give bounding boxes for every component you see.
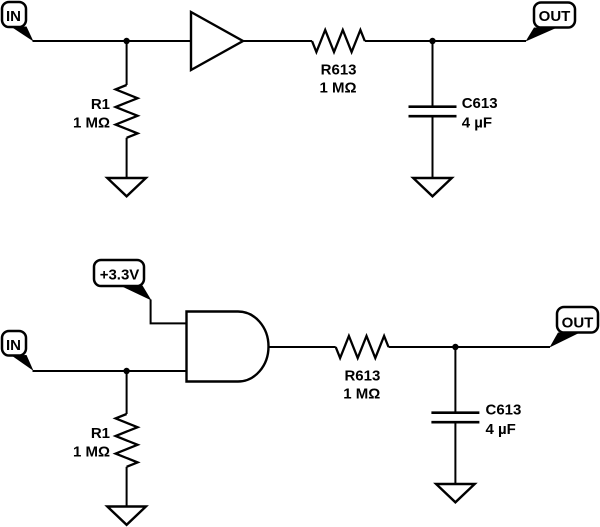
svg-text:4 µF: 4 µF [486, 421, 516, 438]
net label OUT (top) [534, 3, 575, 28]
label R1 1 MΩ (bottom) [73, 425, 110, 461]
net label IN pointer (bottom) [12, 355, 34, 371]
svg-text:IN: IN [6, 8, 21, 25]
svg-text:R1: R1 [91, 96, 110, 113]
ground (bottom left) [107, 507, 146, 525]
svg-text:R1: R1 [91, 425, 110, 442]
wire C613 to ground (bottom) [454, 422, 456, 484]
node D junction [452, 344, 458, 350]
resistor R1 (bottom) [116, 414, 138, 467]
wire AND output to R613 [269, 346, 336, 348]
op-amp buffer [191, 12, 243, 70]
label R613 1 MΩ (bottom) [343, 367, 380, 402]
net label +3.3V pointer [121, 286, 152, 301]
wire R613 to node D [389, 346, 551, 348]
svg-text:1 MΩ: 1 MΩ [343, 386, 380, 403]
ground (bottom right) [436, 484, 475, 502]
svg-text:1 MΩ: 1 MΩ [319, 80, 356, 97]
svg-text:IN: IN [6, 337, 21, 354]
net label IN pointer (top) [12, 27, 34, 42]
node A junction [123, 38, 129, 44]
wire R613 to node B [365, 40, 526, 42]
wire node A to R1 [126, 41, 128, 85]
ground (top left) [107, 178, 146, 196]
svg-text:R613: R613 [344, 367, 380, 384]
svg-text:4 µF: 4 µF [462, 114, 492, 131]
svg-text:1 MΩ: 1 MΩ [73, 115, 110, 132]
svg-text:OUT: OUT [539, 8, 571, 25]
capacitor C613 (top) [409, 107, 457, 117]
resistor R613 (top) [312, 30, 365, 52]
resistor R613 (bottom) [336, 336, 389, 358]
svg-text:1 MΩ: 1 MΩ [73, 444, 110, 461]
svg-text:C613: C613 [486, 402, 522, 419]
wire node D to C613 (bottom) [454, 347, 456, 413]
net label +3.3V [94, 260, 144, 286]
net label OUT pointer (top) [526, 28, 556, 42]
wire R1 to ground (bottom) [126, 467, 128, 507]
node B junction [429, 38, 435, 44]
svg-text:OUT: OUT [562, 315, 594, 332]
AND gate [187, 312, 269, 382]
node C junction [123, 368, 129, 374]
wire IN to node A [33, 40, 192, 42]
capacitor C613 (bottom) [431, 413, 479, 423]
label R1 1 MΩ (top) [73, 96, 110, 132]
wire +3.3V to AND gate input [151, 300, 186, 324]
svg-text:+3.3V: +3.3V [100, 267, 140, 284]
svg-text:R613: R613 [321, 62, 357, 79]
net label IN (bottom) [2, 331, 26, 356]
wire C613 to ground [432, 116, 434, 178]
ground (top right) [413, 178, 452, 196]
net label IN (top) [2, 2, 26, 27]
svg-text:C613: C613 [462, 95, 498, 112]
label R613 1 MΩ (top) [319, 62, 356, 97]
wire node B to C613 [432, 41, 434, 107]
wire R1 to ground [126, 138, 128, 178]
net label OUT (bottom) [557, 307, 598, 333]
wire IN to node C [33, 370, 188, 372]
resistor R1 (top) [116, 85, 138, 138]
label C613 4 µF (top) [462, 95, 498, 131]
net label OUT pointer (bottom) [550, 333, 579, 348]
wire buffer output to R613 [243, 40, 312, 42]
label C613 4 µF (bottom) [486, 402, 522, 438]
wire node C to R1 (bottom) [126, 371, 128, 414]
